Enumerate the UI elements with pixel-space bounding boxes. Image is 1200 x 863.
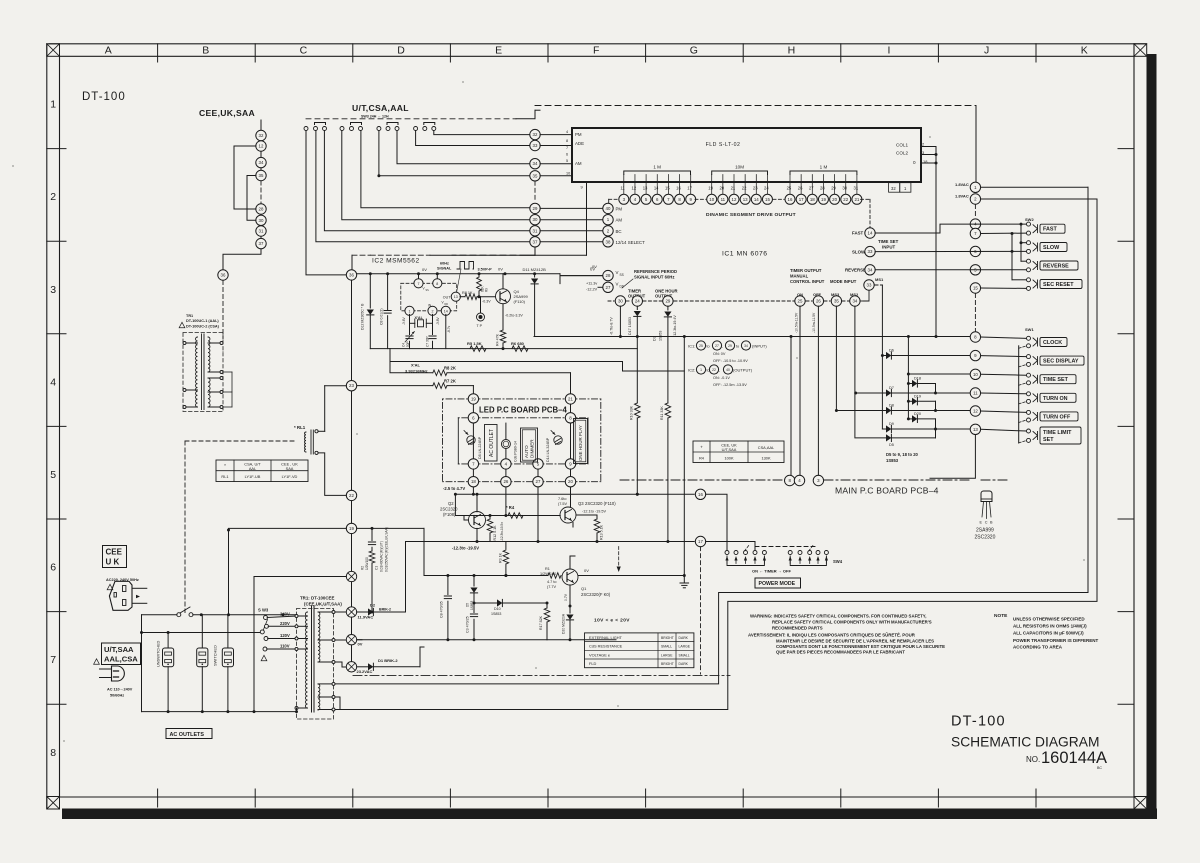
- wire connector 10: [908, 373, 969, 375]
- svg-text:DT-100: DT-100: [951, 714, 1006, 730]
- svg-text:30: 30: [259, 218, 264, 223]
- wire mains switched: [142, 614, 178, 616]
- svg-text:33: 33: [867, 283, 872, 288]
- wire q3 collector: [570, 506, 572, 508]
- connector 23.2VAC: [346, 662, 356, 672]
- svg-text:11: 11: [620, 186, 625, 191]
- svg-text:D11 MZ412B: D11 MZ412B: [523, 267, 547, 272]
- wire x254 drop: [253, 577, 255, 712]
- svg-text:CLOCK: CLOCK: [1043, 340, 1062, 346]
- svg-text:AAL,CSA: AAL,CSA: [104, 655, 138, 664]
- svg-text:PM: PM: [616, 206, 623, 211]
- svg-text:33: 33: [868, 249, 873, 254]
- TO-92 package outline: [981, 491, 992, 502]
- svg-text:BRIK-2: BRIK-2: [379, 608, 391, 612]
- svg-text:29: 29: [533, 206, 538, 211]
- switch REVERSE: [1027, 259, 1031, 263]
- wire dashed top rail: [535, 105, 976, 107]
- svg-text:IC2:: IC2:: [688, 368, 695, 373]
- wire Q4 collector R4: [502, 304, 504, 330]
- svg-text:SEC RESET: SEC RESET: [1043, 282, 1074, 288]
- svg-text:D19: D19: [914, 395, 921, 399]
- svg-text:15: 15: [665, 186, 670, 191]
- svg-text:FLD: FLD: [589, 661, 597, 666]
- connector 34: [530, 159, 540, 169]
- wire out to base: [460, 296, 465, 298]
- wire sec 0V: [335, 639, 346, 641]
- transistor Q4 2SA999: [496, 289, 511, 304]
- svg-text:40: 40: [726, 368, 730, 372]
- svg-text:DT-100: DT-100: [82, 91, 126, 103]
- wire to connector 30t: [342, 131, 530, 220]
- svg-text:D17 1S853: D17 1S853: [628, 317, 632, 335]
- svg-text:23.2VAC: 23.2VAC: [357, 669, 373, 674]
- diode D5: [856, 437, 886, 439]
- connector 58: [256, 130, 266, 140]
- rail q2 collector: [455, 493, 694, 495]
- svg-text:NOTE: NOTE: [994, 613, 1008, 619]
- wire dashed switch bus: [306, 118, 516, 120]
- svg-text:50P: 50P: [406, 341, 410, 347]
- wire time set: [981, 373, 1026, 376]
- svg-text:SIGNAL INPUT 60Hz: SIGNAL INPUT 60Hz: [634, 275, 674, 280]
- wire to connector 37: [316, 131, 530, 242]
- svg-text:-2.5 to 4.7V: -2.5 to 4.7V: [443, 486, 465, 491]
- svg-text:14: 14: [868, 231, 873, 236]
- pcb connector 4: [794, 475, 804, 485]
- connector 11r: [970, 388, 980, 398]
- svg-text:12: 12: [732, 197, 737, 202]
- SW1 dashed arms: [1019, 346, 1027, 349]
- warning triangle a: [107, 584, 113, 589]
- svg-text:6: 6: [566, 153, 568, 157]
- svg-text:27: 27: [809, 186, 814, 191]
- wire to connector 31t: [324, 131, 529, 231]
- dashed drop to IC1 right pins: [869, 199, 871, 227]
- svg-text:B: B: [202, 45, 209, 57]
- diode D18: [908, 383, 912, 385]
- svg-text:UNLESS OTHERWISE SPECIFIED: UNLESS OTHERWISE SPECIFIED: [1013, 617, 1085, 622]
- svg-text:,: ,: [719, 369, 720, 373]
- svg-text:ON: 0V: ON: 0V: [713, 352, 726, 356]
- IC1 pin 27 VDD: [603, 282, 613, 292]
- svg-text:27: 27: [536, 479, 541, 484]
- svg-text:CEE,UK,SAA: CEE,UK,SAA: [199, 108, 255, 118]
- svg-text:UNSWITCHED: UNSWITCHED: [156, 640, 161, 667]
- svg-text:1 M: 1 M: [820, 165, 828, 170]
- resistor R1 100: [548, 573, 561, 579]
- svg-text:100K: 100K: [724, 456, 733, 461]
- AC outlet 2: [197, 648, 208, 667]
- wire 31 to IC1 BC: [540, 230, 602, 232]
- IC1 pin 2 BC: [603, 226, 613, 236]
- LED connector 20: [565, 477, 575, 487]
- IC1 pin 26: [813, 296, 823, 306]
- svg-text:OFF: -12.5m -13.5V: OFF: -12.5m -13.5V: [713, 383, 747, 387]
- capacitor C8 470/35: [447, 576, 449, 595]
- svg-text:SAA: SAA: [286, 466, 294, 471]
- capacitor C1 snubber: [371, 528, 373, 540]
- svg-text:2: 2: [432, 309, 434, 313]
- diode D19: [908, 400, 912, 402]
- IC1 pin 25: [795, 296, 805, 306]
- connector 57: [256, 238, 266, 248]
- connector 33: [530, 140, 540, 150]
- connector 13r: [970, 424, 980, 434]
- capacitor C7 33P: [432, 323, 434, 334]
- diode D20 MZ320A: [569, 608, 571, 613]
- dashed border bottom: [353, 674, 730, 676]
- svg-text:DARK: DARK: [679, 662, 689, 666]
- svg-text:R4: R4: [699, 456, 705, 461]
- diode D11: [534, 274, 536, 277]
- svg-text:S W3: S W3: [258, 608, 269, 613]
- svg-text:28: 28: [259, 207, 264, 212]
- svg-text:17: 17: [687, 186, 692, 191]
- trimmer C4 50P: [409, 323, 411, 334]
- capacitor C3 470/25: [473, 603, 475, 613]
- segment group bracket 10M: [712, 171, 768, 175]
- svg-text:U/T,SAA: U/T,SAA: [722, 447, 737, 452]
- svg-text:A: A: [105, 45, 112, 57]
- svg-text:ACCORDING TO AREA: ACCORDING TO AREA: [1013, 645, 1063, 650]
- LED connector 4: [501, 459, 511, 469]
- resistor R7 2K wire: [472, 386, 474, 394]
- resistor R6 680: [512, 346, 528, 352]
- svg-text:13: 13: [643, 186, 648, 191]
- IC1 pin 1 AM: [603, 215, 613, 225]
- selector 110V: [263, 647, 267, 651]
- diode D2 BRIK-2: [357, 611, 368, 613]
- svg-text:2SA999: 2SA999: [976, 528, 994, 534]
- TR1UC right winding lower: [208, 378, 210, 407]
- svg-text:4.7 to: 4.7 to: [547, 580, 557, 584]
- svg-text:D12 MZ305C * B: D12 MZ305C * B: [361, 303, 365, 330]
- segment group bracket 1M a: [624, 171, 691, 175]
- svg-text:K: K: [1081, 45, 1088, 57]
- connector x576: [346, 571, 356, 581]
- svg-text:D18: D18: [914, 377, 921, 381]
- connector 7r: [970, 228, 980, 238]
- wire pin26 drop: [817, 306, 819, 475]
- rail 0V y575: [424, 575, 548, 577]
- svg-text:C1: C1: [375, 566, 379, 570]
- svg-text:PM: PM: [575, 132, 582, 137]
- svg-text:26: 26: [798, 186, 803, 191]
- svg-text:FAST: FAST: [1043, 227, 1057, 233]
- wire 30 to IC1 AM: [540, 219, 602, 221]
- svg-text:R12 5.1K: R12 5.1K: [493, 525, 497, 541]
- connector 31: [256, 226, 266, 236]
- svg-text:D5: D5: [889, 443, 894, 447]
- svg-text:25: 25: [699, 344, 703, 348]
- svg-text:R8 1K: R8 1K: [462, 291, 473, 295]
- connector 35: [530, 171, 540, 181]
- wire conn2 rail: [981, 198, 1097, 200]
- svg-text:31: 31: [259, 229, 264, 234]
- svg-text:ON ← TIMER → OFF: ON ← TIMER → OFF: [752, 569, 791, 574]
- wire main 0V drop: [683, 337, 685, 576]
- LED connector 8: [565, 413, 575, 423]
- IC1 pin 34 MS2: [850, 296, 860, 306]
- svg-text:18: 18: [471, 479, 476, 484]
- svg-text:36: 36: [221, 273, 226, 278]
- svg-text:R8 2K: R8 2K: [444, 366, 456, 371]
- wire to connector 35: [379, 131, 530, 176]
- switch SW3-c: [377, 127, 381, 131]
- switch SW3-d: [414, 127, 418, 131]
- svg-text:8: 8: [436, 282, 438, 286]
- svg-text:CONTROL INPUT: CONTROL INPUT: [790, 279, 825, 284]
- wire 29 to IC1 PM: [540, 207, 602, 209]
- LED board inner box: [458, 417, 468, 419]
- svg-text:2SC2320: 2SC2320: [975, 535, 996, 541]
- svg-text:240V: 240V: [280, 612, 290, 617]
- TR1UC taps: [183, 342, 186, 345]
- resistor R17 82K: [546, 603, 548, 608]
- wire led col b: [570, 404, 572, 412]
- diode D10 1S853: [474, 602, 497, 604]
- svg-text:TR1: TR1: [186, 314, 193, 318]
- wire to connector 33: [416, 131, 530, 146]
- svg-text:TR1: DT-100CEE: TR1: DT-100CEE: [300, 596, 334, 601]
- svg-text:MANUAL: MANUAL: [790, 274, 809, 279]
- dashed sw4 link: [755, 546, 815, 548]
- svg-text:*: *: [224, 463, 226, 468]
- svg-text:10: 10: [973, 372, 978, 377]
- svg-text:35: 35: [259, 173, 264, 178]
- wire rail down to connector 1: [975, 106, 977, 182]
- svg-text:10M: 10M: [735, 165, 744, 170]
- squarewave symbol: [457, 262, 474, 270]
- svg-text:U/T,SAA: U/T,SAA: [104, 645, 134, 654]
- scan speckles: [12, 165, 14, 167]
- TR1UC left winding: [196, 337, 198, 407]
- LED connector 6: [468, 413, 478, 423]
- switch TURN ON: [1027, 392, 1031, 396]
- svg-text:11: 11: [721, 197, 726, 202]
- LED connector 26: [501, 477, 511, 487]
- svg-text:to: to: [707, 345, 710, 349]
- svg-text:13: 13: [743, 197, 748, 202]
- border frame right line: [1133, 44, 1135, 797]
- diode D12 MZ305C: [369, 274, 371, 308]
- wire q2 emitter: [476, 528, 478, 541]
- wire dash 35-29: [534, 181, 536, 202]
- wire q2 collector: [476, 494, 478, 511]
- svg-text:40: 40: [606, 206, 611, 211]
- svg-text:10: 10: [566, 171, 570, 175]
- svg-text:19: 19: [349, 526, 354, 531]
- svg-text:31: 31: [533, 228, 538, 233]
- svg-text:34: 34: [744, 344, 748, 348]
- dashed arrow x618: [618, 547, 620, 569]
- svg-text:R6 680: R6 680: [511, 341, 525, 346]
- wire reverse upper stub: [1021, 260, 1026, 262]
- wire 23 left: [325, 385, 347, 387]
- svg-text:0V: 0V: [498, 267, 503, 272]
- svg-text:11.9VAC: 11.9VAC: [358, 615, 374, 620]
- svg-text:RL1: RL1: [221, 474, 228, 479]
- IC2 pin 14: [441, 306, 450, 315]
- corner mark bottom-right: [1134, 797, 1147, 810]
- svg-text:-12.3to-19.5v: -12.3to-19.5v: [500, 522, 504, 541]
- svg-text:30: 30: [533, 217, 538, 222]
- svg-text:26: 26: [503, 479, 508, 484]
- TR1UC right winding upper: [208, 337, 210, 372]
- svg-text:(7.5V: (7.5V: [558, 502, 568, 506]
- wire dashed to TR1: [222, 281, 224, 340]
- grid row ticks: [47, 148, 66, 150]
- svg-text:REPLACE SAFETY CRITICAL COM: REPLACE SAFETY CRITICAL COMPONENTS ONLY …: [772, 620, 932, 625]
- FLD display box: [572, 128, 921, 182]
- selector 120V: [264, 637, 268, 641]
- table R4 values: [693, 441, 784, 463]
- resistor R4 adj: [508, 513, 523, 519]
- wire 37 down to IC2 rail: [520, 247, 535, 255]
- rail y640: [355, 639, 617, 641]
- svg-text:D20: D20: [914, 412, 921, 416]
- wire q3 emitter: [572, 523, 574, 528]
- wire fast lower: [981, 232, 1026, 234]
- bus rail y361: [390, 361, 623, 363]
- wire pin24 drop D17: [636, 306, 638, 309]
- border frame bottom line: [60, 796, 1135, 798]
- wire 26 drop: [505, 487, 507, 516]
- svg-text:22: 22: [349, 493, 354, 498]
- svg-text:SW1: SW1: [1025, 327, 1034, 332]
- connector 6r: [970, 246, 980, 256]
- svg-text:110V: 110V: [280, 644, 290, 649]
- svg-text:-12.3to-19.4V: -12.3to-19.4V: [673, 315, 677, 337]
- wire sec to conn 11.9: [335, 611, 346, 613]
- wire long left drop: [306, 131, 346, 275]
- connector 11.9VAC: [346, 607, 356, 617]
- svg-text:J: J: [984, 45, 989, 57]
- corner mark top-right: [1134, 44, 1147, 57]
- corner mark bottom-left: [47, 797, 60, 810]
- IC2 pin 7: [418, 274, 420, 280]
- wire 16 right: [706, 494, 727, 549]
- svg-text:13: 13: [454, 295, 458, 299]
- connector 8r: [970, 332, 980, 342]
- long rail B: [334, 199, 1098, 710]
- switch SLOW: [1027, 241, 1031, 245]
- svg-text:33: 33: [533, 143, 538, 148]
- connector 4r: [970, 219, 980, 229]
- connector 5r: [970, 265, 980, 275]
- svg-text:21: 21: [568, 396, 573, 401]
- svg-text:TIME LIMIT: TIME LIMIT: [1043, 430, 1072, 436]
- svg-text:POWER TRANSFORMER IS DIFFER: POWER TRANSFORMER IS DIFFERENT: [1013, 638, 1099, 643]
- svg-text:-8.7v: -8.7v: [447, 326, 451, 333]
- svg-text:SW3 24H ↔ 12H: SW3 24H ↔ 12H: [361, 115, 389, 119]
- svg-text:(7.7V: (7.7V: [547, 585, 557, 589]
- IC1 pin 28 VSS: [603, 270, 613, 280]
- bus 0V y337: [534, 336, 975, 338]
- svg-text:29: 29: [728, 344, 732, 348]
- diode D7: [856, 392, 886, 394]
- svg-text:34: 34: [533, 161, 538, 166]
- transistor Q1 2SC2320: [562, 569, 578, 585]
- svg-text:OFF: -10.5 to -10.9V: OFF: -10.5 to -10.9V: [713, 359, 748, 363]
- svg-text:34: 34: [852, 299, 857, 304]
- svg-text:R11 33K: R11 33K: [660, 406, 664, 420]
- LED D8 LN-224BP: [467, 436, 475, 444]
- warning triangle b: [94, 659, 100, 664]
- wire primary bottom: [296, 708, 298, 712]
- svg-text:U K: U K: [106, 558, 120, 567]
- connector 19b: [346, 523, 356, 533]
- svg-text:H: H: [788, 45, 796, 57]
- svg-text:TIME SET: TIME SET: [878, 239, 899, 244]
- svg-text:1S853: 1S853: [491, 612, 501, 616]
- svg-text:EXTERNAL LIGHT: EXTERNAL LIGHT: [589, 635, 623, 640]
- LED D14 LN-324BP: [554, 436, 562, 444]
- connector 32: [530, 129, 540, 139]
- svg-text:120V: 120V: [280, 633, 290, 638]
- junction bus sw2b: [1011, 234, 1013, 280]
- svg-text:REFERENCE PERIOD: REFERENCE PERIOD: [634, 269, 677, 274]
- svg-text:D5: D5: [466, 603, 470, 607]
- svg-text:14: 14: [444, 309, 448, 313]
- svg-text:24: 24: [764, 186, 769, 191]
- wire chain vertical: [260, 120, 262, 131]
- svg-text:to: to: [736, 345, 739, 349]
- svg-text:0V: 0V: [584, 568, 589, 573]
- svg-text:1/2W100: 1/2W100: [365, 557, 369, 570]
- connector 28: [256, 204, 266, 214]
- svg-text:ALL RESISTORS IN OHMS 1/4W: ALL RESISTORS IN OHMS 1/4W(J): [1013, 624, 1087, 629]
- wire top rail riser: [516, 110, 535, 119]
- svg-text:TIME SET: TIME SET: [1043, 377, 1069, 383]
- IC1 pin 30: [615, 296, 625, 306]
- wire vdd: [598, 286, 602, 288]
- svg-text:R2: R2: [361, 566, 365, 570]
- wire col 23-22: [351, 391, 353, 490]
- svg-text:(F110): (F110): [514, 299, 526, 304]
- diode D9: [882, 428, 886, 430]
- svg-text:-3.6V: -3.6V: [402, 317, 406, 325]
- svg-text:19: 19: [821, 197, 826, 202]
- svg-text:4: 4: [50, 376, 56, 388]
- svg-text:TURN ON: TURN ON: [1043, 396, 1068, 402]
- svg-text:12: 12: [973, 409, 978, 414]
- transistor Q3 2SC2320: [560, 507, 576, 523]
- svg-text:SET: SET: [1043, 437, 1054, 443]
- wire q3 base: [553, 515, 560, 517]
- svg-text:WARNING: INDICATES SAFETY CR: WARNING: INDICATES SAFETY CRITICAL COMPO…: [750, 614, 926, 619]
- plug CEE UK: [109, 581, 132, 610]
- svg-text:R4 47K: R4 47K: [496, 333, 500, 346]
- svg-text:I: I: [888, 45, 891, 57]
- connector 22: [346, 490, 356, 500]
- wire slow upper stub: [1021, 242, 1026, 244]
- svg-text:-6.7to-8.7V: -6.7to-8.7V: [610, 317, 614, 335]
- ground symbol: [683, 576, 685, 584]
- svg-text:IC1 MN 6076: IC1 MN 6076: [722, 251, 768, 258]
- svg-text:4: 4: [566, 130, 568, 134]
- svg-text:SIGNAL: SIGNAL: [437, 267, 452, 271]
- IC2 box: [352, 254, 370, 256]
- wire q1 emitter down: [569, 585, 571, 608]
- IC1 bottom dashed row: [608, 300, 614, 302]
- svg-text:0.7V: 0.7V: [564, 593, 568, 601]
- svg-text:34: 34: [868, 267, 873, 272]
- wire led col c: [505, 469, 507, 476]
- wire fast bend: [875, 224, 1026, 233]
- wire turn off: [981, 411, 1026, 412]
